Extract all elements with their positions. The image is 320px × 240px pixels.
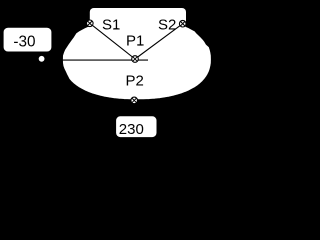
ellipse (mirror/lens surface) <box>62 19 211 100</box>
top white bar (covers ellipse top outline, holds S1/S2 labels) <box>90 8 186 29</box>
svg-text:P1: P1 <box>126 33 144 50</box>
label S1 "1" foot serif <box>114 28 118 29</box>
svg-text:S2: S2 <box>158 17 176 34</box>
svg-text:-30: -30 <box>13 33 35 50</box>
object point dot near -30 box <box>39 56 45 62</box>
box -30 <box>3 27 52 52</box>
svg-text:S1: S1 <box>102 17 120 34</box>
wire: S1 to P1 <box>90 23 135 59</box>
node S1 (circle-X marker) <box>87 20 94 27</box>
node P2 (circle-X marker at bottom of ellipse) <box>131 97 138 104</box>
node S2 (circle-X marker) <box>179 20 186 27</box>
svg-text:230: 230 <box>119 121 144 138</box>
node P1 (circle-X marker) <box>132 56 139 63</box>
box 230 <box>115 116 157 138</box>
svg-text:P2: P2 <box>126 73 144 90</box>
label P1 "1" foot serif <box>138 44 142 45</box>
wire: S2 to P1 <box>135 24 183 59</box>
wire: horizontal axis line through P1 <box>62 59 149 61</box>
